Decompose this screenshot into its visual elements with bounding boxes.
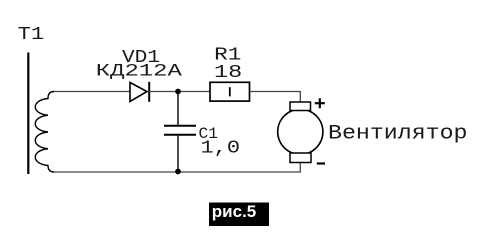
svg-text:1,0: 1,0 <box>201 138 241 159</box>
svg-text:Т1: Т1 <box>18 24 45 45</box>
svg-text:КД212А: КД212А <box>96 62 183 81</box>
svg-text:18: 18 <box>214 62 242 83</box>
svg-text:рис.5: рис.5 <box>212 202 256 221</box>
svg-text:Вентилятор: Вентилятор <box>328 123 468 146</box>
